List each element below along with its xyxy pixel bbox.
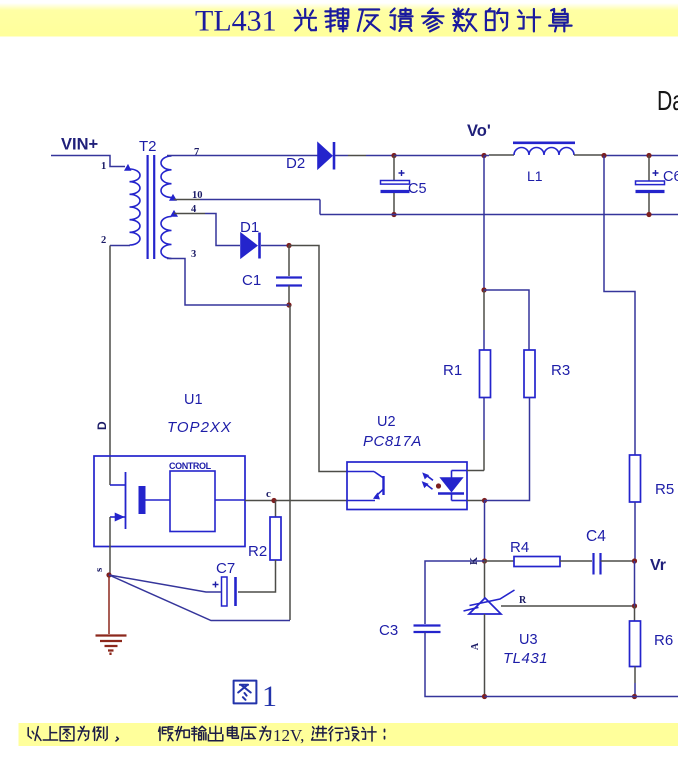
- bottom strip text: 以上图为例，假如输出电压为12V,进行设计：: [28, 726, 384, 745]
- wire C5 bottom: [393, 193, 395, 215]
- wire pin 10 step down: [319, 200, 321, 215]
- wire LED anode to R1: [467, 470, 484, 472]
- svg-text:U3: U3: [519, 632, 538, 648]
- shunt regulator U3 TL431 symbol: [464, 590, 515, 614]
- junction TL431 anode / bottom rail: [482, 694, 487, 699]
- wire C5 top: [393, 156, 395, 181]
- U1 MOSFET drain lead: [110, 484, 126, 486]
- U1 pin label D: [95, 421, 109, 430]
- label U2: [377, 414, 396, 430]
- svg-text:1: 1: [101, 161, 106, 172]
- label D2: [286, 155, 305, 172]
- wire C3 branch top: [425, 561, 485, 624]
- svg-text:C7: C7: [216, 560, 235, 577]
- net label VIN+: [61, 136, 98, 154]
- wire Vr node down: [634, 561, 636, 606]
- svg-text:TOP2XX: TOP2XX: [167, 419, 232, 436]
- wire R6 bottom to rail: [634, 667, 636, 697]
- svg-text:C5: C5: [408, 181, 427, 197]
- wire reference node to R6: [634, 606, 636, 621]
- svg-text:R1: R1: [443, 362, 462, 379]
- capacitor C3: [414, 626, 441, 633]
- svg-text:T2: T2: [139, 138, 157, 155]
- junction C1 bottom: [286, 302, 291, 307]
- label D1: [240, 219, 259, 236]
- junction R1/R3 top: [481, 287, 486, 292]
- wire source node to ground: [108, 575, 110, 634]
- text Da (cropped): [657, 85, 678, 116]
- wire C6 bottom: [648, 193, 650, 215]
- label R5: [655, 481, 674, 498]
- TL431 pin label R: [519, 595, 527, 606]
- wire LED cathode node down to R4 node: [484, 501, 486, 562]
- wire C1 bottom: [288, 286, 290, 306]
- junction C6 bottom: [646, 212, 651, 217]
- wire R4 to C4: [560, 560, 592, 562]
- resistor R1: [480, 350, 491, 398]
- wire T2 pin 7 to D2 anode: [167, 155, 318, 157]
- wire R2 top: [275, 501, 277, 518]
- label U1: [184, 392, 203, 408]
- svg-text:PC817A: PC817A: [363, 433, 422, 450]
- wire Vo' down to R1/R3: [483, 156, 485, 291]
- TL431 pin label A (rotated): [470, 642, 481, 650]
- T2 pin number 2: [101, 235, 106, 246]
- capacitor C4: [594, 553, 601, 575]
- svg-text:L1: L1: [527, 168, 543, 184]
- wire T2 pin 10: [174, 199, 320, 201]
- wire U1 C pin to opto emitter: [245, 500, 347, 502]
- wire T2 pin 2: [110, 245, 130, 247]
- svg-text:3: 3: [191, 249, 196, 260]
- wire TL431 reference to Vr line: [501, 605, 635, 607]
- resistor R2: [270, 517, 281, 560]
- svg-text:Vr: Vr: [650, 557, 666, 574]
- net label Vr: [650, 557, 666, 574]
- T2 pin number 7: [194, 147, 199, 158]
- junction C6 top: [646, 153, 651, 158]
- wire C1 node to opto collector branch: [289, 246, 347, 472]
- svg-text:D: D: [95, 421, 109, 430]
- junction R4/C3/TL431 cathode: [482, 558, 487, 563]
- svg-text:TL431: TL431: [195, 5, 277, 38]
- label C5: [408, 181, 427, 197]
- label U3: [519, 632, 538, 648]
- diode D2: [318, 142, 335, 170]
- U1 pin label s: [93, 567, 105, 572]
- label R6: [654, 632, 673, 649]
- svg-text:C6: C6: [663, 169, 678, 185]
- U1 MOSFET gate bar: [139, 486, 146, 514]
- label R4: [510, 539, 529, 556]
- svg-text:c: c: [266, 488, 271, 500]
- junction L1 output: [601, 153, 606, 158]
- resistor R4: [514, 557, 560, 567]
- U1 CONTROL block: [170, 471, 215, 532]
- svg-text:1: 1: [262, 680, 277, 713]
- title bar: [0, 3, 678, 37]
- U1 pin label c: [266, 488, 271, 500]
- wire TL431 cathode: [484, 561, 486, 598]
- label R3: [551, 362, 570, 379]
- label R1: [443, 362, 462, 379]
- wire Vo' to L1: [484, 154, 514, 157]
- wire C6 top: [648, 156, 650, 182]
- junction D2/C5: [391, 153, 396, 158]
- transformer T2 core: [148, 155, 155, 259]
- wire T2 pin 3 to C1 bottom: [167, 259, 289, 306]
- svg-text:R2: R2: [248, 543, 267, 560]
- wire control block to C pin: [215, 499, 245, 501]
- optocoupler U2 box: [347, 462, 467, 510]
- svg-text:TL431: TL431: [503, 650, 548, 667]
- U2 phototransistor: [347, 472, 384, 501]
- junction D1/C1: [286, 243, 291, 248]
- wire VIN+ input to T2 pin 1: [51, 156, 125, 167]
- wire T2 pin 4: [174, 214, 240, 246]
- wire R3 bottom to LED cathode node: [485, 398, 530, 501]
- junction Vo': [481, 153, 486, 158]
- wire gate to control block: [146, 499, 171, 501]
- junction source node s: [106, 572, 111, 577]
- label PC817A: [363, 433, 422, 450]
- wire R4 left: [485, 560, 515, 562]
- label C3: [379, 622, 398, 639]
- junction reference / Vr line: [632, 603, 637, 608]
- svg-text:C3: C3: [379, 622, 398, 639]
- label L1: [527, 168, 543, 184]
- capacitor C5 (electrolytic): [381, 170, 410, 192]
- wire C7 left to source node: [109, 575, 222, 592]
- T2 pin number 3: [191, 249, 196, 260]
- wire junction to R3: [484, 290, 529, 350]
- svg-text:R3: R3: [551, 362, 570, 379]
- wire LED cathode to R3/TL431 node: [467, 500, 484, 502]
- wire L1 node down to R5: [604, 156, 635, 456]
- wire R1 bottom to LED anode: [483, 398, 485, 471]
- wire C1 top: [288, 246, 290, 277]
- junction Vr: [632, 558, 637, 563]
- title text: TL431 光耦反馈参数的计算: [195, 5, 572, 38]
- svg-text:VIN+: VIN+: [61, 136, 98, 154]
- resistor R5: [630, 455, 641, 502]
- junction LED anode side: [436, 483, 441, 488]
- capacitor C6 (electrolytic): [636, 170, 665, 192]
- U2 LED light arrows: [422, 473, 433, 489]
- U1 MOSFET source lead with arrow: [110, 513, 126, 575]
- wire C1 bottom down to TOP2XX return: [289, 305, 291, 620]
- wire C4 to Vr node: [601, 560, 635, 562]
- U2 LED: [438, 471, 467, 501]
- svg-text:D1: D1: [240, 219, 259, 236]
- svg-text:Da: Da: [657, 85, 678, 116]
- svg-text:K: K: [469, 557, 480, 565]
- label T2: [139, 138, 157, 155]
- diode D1: [241, 233, 260, 259]
- label C1: [242, 272, 261, 289]
- svg-text:R: R: [519, 595, 527, 606]
- wire bottom rail: [485, 696, 678, 698]
- T2 pin number 1: [101, 161, 106, 172]
- wire R2 bottom to C7: [238, 560, 276, 592]
- transformer T2 primary winding: [130, 169, 141, 245]
- svg-text:D2: D2: [286, 155, 305, 172]
- wire source node diagonal to TOP2XX return: [109, 575, 290, 621]
- label TOP2XX: [167, 419, 232, 436]
- label C6: [663, 169, 678, 185]
- label R2: [248, 543, 267, 560]
- svg-text:Vo': Vo': [467, 122, 491, 140]
- wire C3 bottom: [425, 632, 485, 697]
- label C7: [216, 560, 235, 577]
- svg-text:C4: C4: [586, 528, 606, 545]
- svg-text:R6: R6: [654, 632, 673, 649]
- transformer T2 primary winding polarity dot: [125, 165, 132, 171]
- junction C pin / R2: [271, 498, 276, 503]
- junction R6 / bottom rail: [632, 694, 637, 699]
- wire C5 node to Vo node: [394, 155, 484, 157]
- transformer T2 secondary winding pins 4-3: [161, 217, 172, 259]
- T2 pin number 10: [192, 190, 203, 201]
- wire D1 cathode to C1 node: [261, 245, 289, 247]
- svg-text:R5: R5: [655, 481, 674, 498]
- wire junction to R1: [483, 290, 485, 350]
- junction LED cathode node: [482, 498, 487, 503]
- transformer T2 secondary 4-3 polarity dot: [171, 211, 178, 217]
- transformer T2 secondary 7-10 polarity dot: [170, 195, 177, 201]
- wire lower output rail: [320, 214, 678, 216]
- svg-text:R4: R4: [510, 539, 529, 556]
- svg-text:A: A: [470, 642, 481, 650]
- svg-text:12V,: 12V,: [273, 726, 304, 745]
- U1 MOSFET channel: [125, 472, 127, 529]
- resistor R6: [630, 621, 641, 667]
- op IC U1 TOP2XX box: [94, 456, 245, 547]
- capacitor C7 (electrolytic): [213, 577, 236, 606]
- T2 pin number 4: [191, 204, 197, 215]
- inductor L1: [513, 143, 575, 155]
- ground symbol: [96, 636, 127, 656]
- wire L1 to C6 node: [574, 154, 649, 157]
- label TL431: [503, 650, 548, 667]
- junction C5 bottom: [391, 212, 396, 217]
- svg-text:CONTROL: CONTROL: [169, 461, 212, 471]
- wire C6 node to right edge: [649, 155, 678, 157]
- svg-text:C1: C1: [242, 272, 261, 289]
- capacitor C1: [276, 278, 302, 286]
- svg-text:s: s: [93, 567, 105, 572]
- svg-text:U2: U2: [377, 414, 396, 430]
- label C4: [586, 528, 606, 545]
- label CONTROL: [169, 461, 212, 471]
- svg-text:U1: U1: [184, 392, 203, 408]
- svg-text:7: 7: [194, 147, 199, 158]
- svg-text:2: 2: [101, 235, 106, 246]
- TL431 pin label K (rotated): [469, 557, 480, 565]
- wire TL431 anode to bottom rail: [484, 614, 486, 697]
- transformer T2 secondary winding pins 7-10: [161, 156, 172, 198]
- wire R5 bottom to Vr node: [634, 502, 636, 561]
- net label Vo': [467, 122, 491, 140]
- wire D2 cathode to C5 node: [335, 155, 394, 157]
- resistor R3: [524, 350, 535, 398]
- bottom text strip: [19, 723, 678, 746]
- figure label 图1: [234, 680, 277, 713]
- wire T2 pin 2 to U1 drain: [109, 246, 111, 486]
